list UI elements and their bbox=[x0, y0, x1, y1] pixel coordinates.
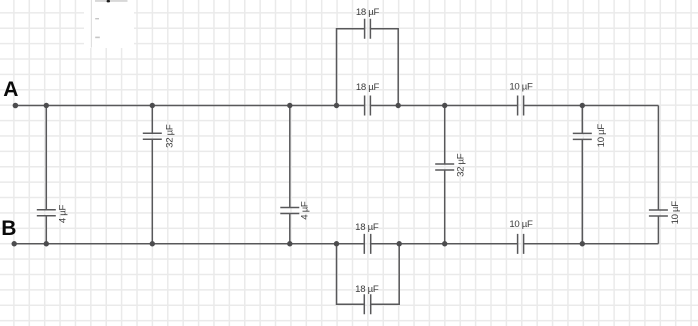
node bottom x=152 bbox=[150, 241, 155, 246]
label terminal A bbox=[3, 78, 18, 101]
svg-text:B: B bbox=[1, 217, 16, 240]
node top x=398 bbox=[396, 103, 401, 108]
svg-text:32 µF: 32 µF bbox=[455, 153, 466, 177]
svg-text:10 µF: 10 µF bbox=[670, 201, 681, 225]
label terminal B bbox=[1, 217, 16, 240]
label C1 value 4 uF (rotated) bbox=[57, 204, 68, 223]
node bottom x=445 bbox=[442, 241, 447, 246]
node top x=290 bbox=[287, 103, 292, 108]
capacitor C3 4uF plates (branch x=290) bbox=[280, 208, 299, 214]
label C8 value 18 uF bbox=[355, 284, 379, 295]
wire bottom rail segment 2 (C7 right plate to C11 left plate) bbox=[371, 243, 518, 245]
node top x=46 bbox=[44, 103, 49, 108]
capacitor C1 4uF plates (left branch) bbox=[37, 210, 56, 216]
wire top rail segment 3 (C9 right plate to top-right corner) bbox=[524, 105, 659, 107]
wire branch at x=290 (with gap for C3) bbox=[289, 106, 291, 244]
wire bottom loop (with gap for C8) bbox=[337, 244, 400, 304]
capacitor C6 32uF plates (branch x=445) bbox=[435, 164, 454, 170]
label C10 value 10 uF (rotated) bbox=[596, 124, 607, 148]
svg-text:18 µF: 18 µF bbox=[355, 222, 379, 233]
label C3 value 4 uF (rotated) bbox=[299, 201, 310, 220]
label C2 value 32 uF (rotated) bbox=[164, 124, 175, 148]
svg-text:10 µF: 10 µF bbox=[509, 219, 533, 230]
capacitor C12 10uF plates (right edge) bbox=[649, 210, 668, 216]
wire right edge vertical (with gap for C12) bbox=[657, 106, 659, 244]
wire top rail segment 1 (A to C5 left plate) bbox=[15, 105, 364, 107]
svg-text:32 µF: 32 µF bbox=[164, 124, 175, 148]
capacitor C8 18uF plates (bottom loop) bbox=[364, 294, 370, 314]
wire bottom rail segment 1 (B to C7 left plate) bbox=[14, 243, 364, 245]
node bottom x=582 bbox=[580, 241, 585, 246]
svg-text:10 µF: 10 µF bbox=[509, 81, 533, 92]
wire left branch vertical (with gap for C1) bbox=[45, 106, 47, 244]
wire branch at x=445 (with gap for C6) bbox=[444, 106, 446, 244]
svg-text:4 µF: 4 µF bbox=[299, 201, 310, 220]
label C6 value 32 uF (rotated) bbox=[455, 153, 466, 177]
capacitor C11 10uF plates (series bottom right) bbox=[518, 234, 524, 254]
node bottom x=336 bbox=[334, 241, 339, 246]
wire branch at x=582 (with gap for C10) bbox=[581, 106, 583, 244]
node terminal B dot bbox=[12, 241, 17, 246]
capacitor C9 10uF plates (series top right) bbox=[518, 96, 524, 116]
svg-text:4 µF: 4 µF bbox=[57, 204, 68, 223]
capacitor C10 10uF plates (branch x=582) bbox=[573, 133, 592, 139]
label C7 value 18 uF bbox=[355, 222, 379, 233]
node top x=152 bbox=[150, 103, 155, 108]
svg-text:10 µF: 10 µF bbox=[596, 124, 607, 148]
capacitor C2 32uF plates (branch x=152) bbox=[143, 133, 162, 139]
wire top rail segment 2 (C5 right plate to C9 left plate) bbox=[370, 105, 517, 107]
node bottom x=290 bbox=[287, 241, 292, 246]
label C9 value 10 uF bbox=[509, 81, 533, 92]
node top x=445 bbox=[442, 103, 447, 108]
label C4 value 18 uF bbox=[356, 7, 380, 18]
label C12 value 10 uF (rotated) bbox=[670, 201, 681, 225]
label C5 value 18 uF bbox=[356, 82, 380, 93]
node bottom x=46 bbox=[44, 241, 49, 246]
svg-text:18 µF: 18 µF bbox=[355, 284, 379, 295]
wire branch at x=152 (with gap for C2) bbox=[151, 106, 153, 244]
capacitor C7 18uF plates (series bottom) bbox=[364, 234, 370, 254]
svg-text:18 µF: 18 µF bbox=[356, 7, 380, 18]
svg-text:18 µF: 18 µF bbox=[356, 82, 380, 93]
capacitor C5 18uF plates (series top) bbox=[365, 96, 371, 116]
wire top loop (with gap for C4) bbox=[337, 29, 399, 106]
node top x=582 bbox=[580, 103, 585, 108]
label C11 value 10 uF bbox=[509, 219, 533, 230]
node terminal A dot bbox=[13, 103, 19, 109]
wire bottom rail segment 3 (C11 right plate to bottom-right corner) bbox=[524, 243, 659, 245]
node bottom x=399 bbox=[397, 241, 402, 246]
svg-text:A: A bbox=[3, 78, 18, 101]
white patch artifact top-left bbox=[84, 0, 134, 48]
node top x=336 bbox=[334, 103, 339, 108]
capacitor C4 18uF plates (top loop) bbox=[365, 19, 371, 39]
